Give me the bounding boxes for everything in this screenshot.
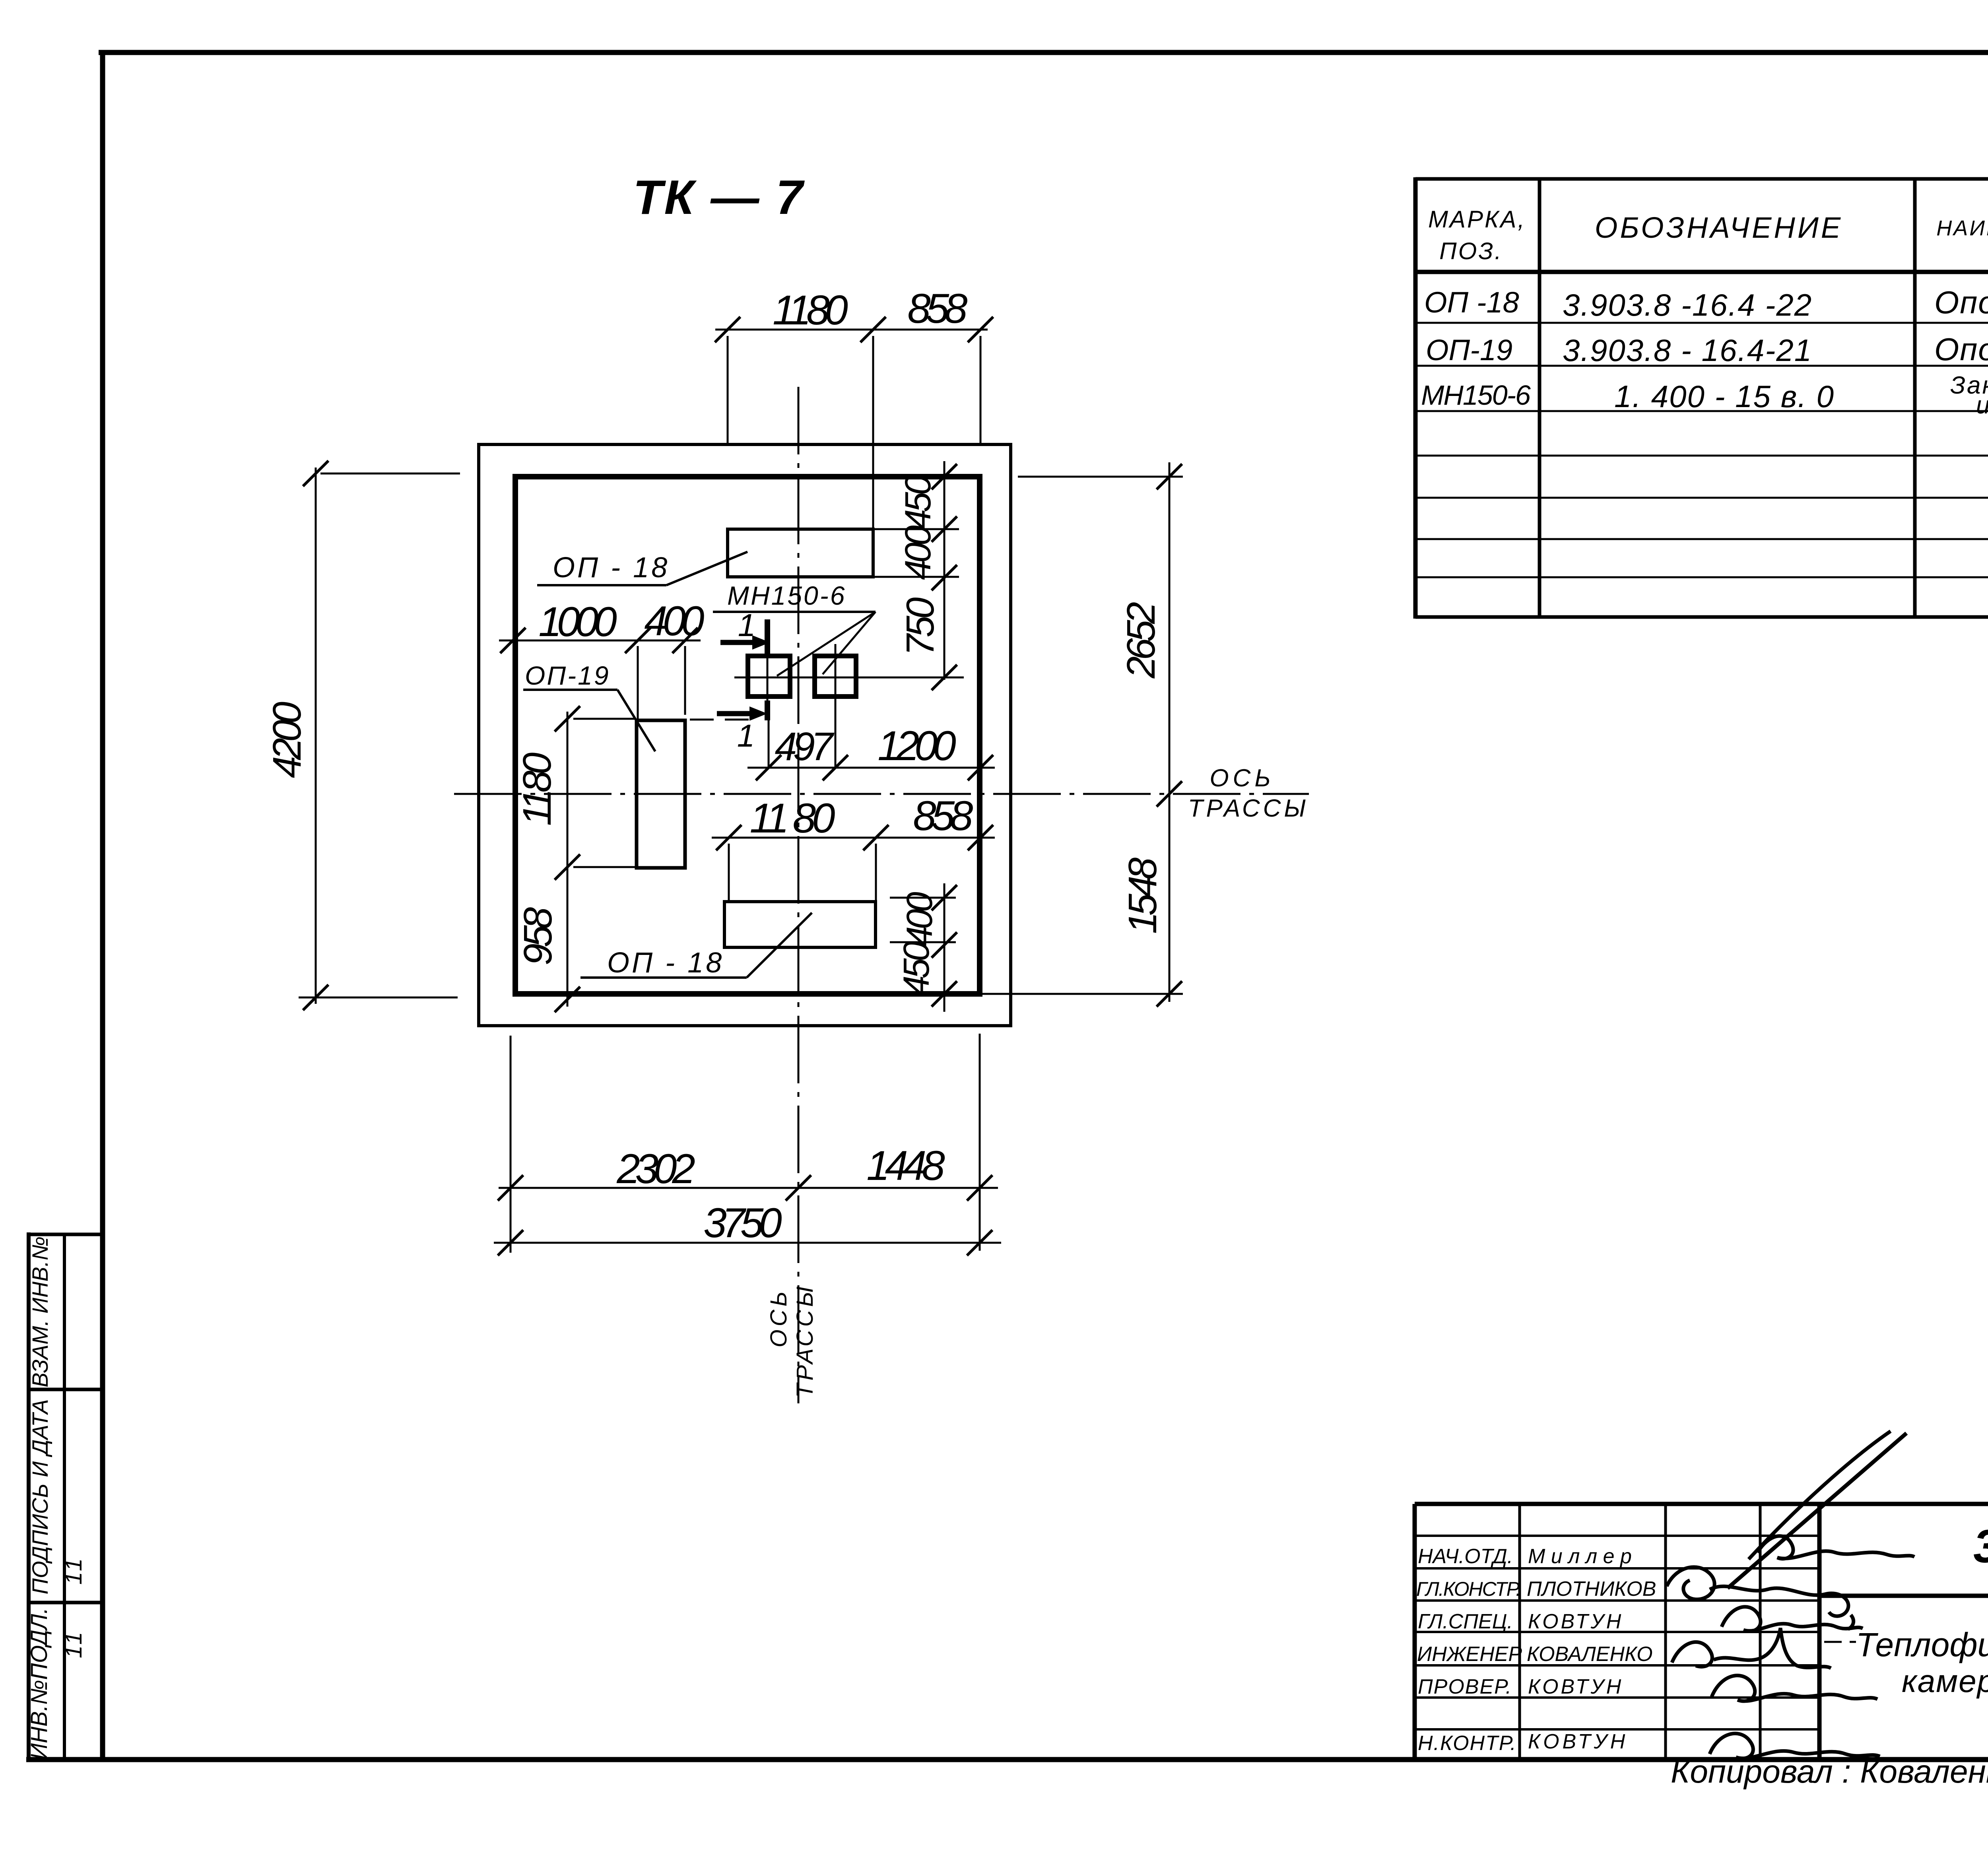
parts table left border [1413, 177, 1418, 619]
section arrow top [720, 640, 755, 645]
dim 1180/958 left: dimension line [567, 712, 569, 1007]
svg-text:ТРАССЫ: ТРАССЫ [792, 1283, 818, 1398]
parts table divider after МАРКА [1538, 179, 1541, 617]
leader МН150-6 to right square [823, 612, 876, 674]
parts table row line 1 [1415, 322, 1988, 324]
frame top edge [99, 50, 1988, 55]
svg-text:ОП-19: ОП-19 [1426, 334, 1512, 367]
svg-text:11: 11 [61, 1630, 87, 1658]
svg-text:МАРКА,: МАРКА, [1428, 206, 1526, 233]
svg-text:3750: 3750 [703, 1200, 782, 1246]
svg-text:КОВТУН: КОВТУН [1528, 1610, 1623, 1633]
svg-text:КОВТУН: КОВТУН [1528, 1675, 1623, 1698]
svg-text:3.903.8 - 16.4-21: 3.903.8 - 16.4-21 [1563, 333, 1812, 368]
svg-text:ОП -18: ОП -18 [1424, 286, 1519, 319]
signature row line 3 [1415, 1599, 1819, 1602]
svg-text:ОП - 18: ОП - 18 [607, 947, 724, 979]
svg-text:КОВАЛЕНКО: КОВАЛЕНКО [1527, 1643, 1653, 1666]
svg-text:ИНВ.№ПОДЛ.: ИНВ.№ПОДЛ. [26, 1608, 52, 1760]
svg-text:ТРАССЫ: ТРАССЫ [1188, 795, 1309, 822]
support ОП-19 [637, 720, 685, 868]
svg-text:ОБОЗНАЧЕНИЕ: ОБОЗНАЧЕНИЕ [1595, 211, 1843, 244]
document number box bottom [1819, 1594, 1988, 1598]
svg-text:1000: 1000 [538, 599, 617, 645]
dim 1180/858 inner: extension lines [728, 844, 730, 902]
signature row line 7 [1415, 1728, 1819, 1731]
dim 2302/1448: dimension line [499, 1187, 998, 1189]
svg-text:НАЧ.ОТД.: НАЧ.ОТД. [1418, 1545, 1513, 1568]
svg-text:1: 1 [737, 718, 755, 753]
embedded item МН150-6 left square [748, 656, 790, 697]
svg-text:ПЛОТНИКОВ: ПЛОТНИКОВ [1527, 1577, 1656, 1601]
parts table row line 2 [1415, 365, 1988, 367]
svg-text:2302: 2302 [616, 1146, 695, 1192]
svg-text:1448: 1448 [866, 1143, 945, 1189]
svg-text:2652: 2652 [1119, 602, 1163, 679]
dim 1180/858 inner: dimension line [712, 837, 995, 839]
embedded item МН150-6 right square [815, 656, 856, 697]
signature row line 1 [1415, 1535, 1819, 1537]
chamber outer wall [479, 444, 1011, 1026]
parts table bottom border [1415, 615, 1988, 619]
dash segment near ОП-19 top [690, 719, 755, 721]
svg-text:МН150-6: МН150-6 [727, 581, 846, 610]
dim 4200: extension lines [320, 473, 460, 475]
dash near Теплофикационная [1824, 1641, 1856, 1643]
signature table right edge [1817, 1504, 1822, 1760]
frame left edge [100, 50, 105, 1762]
signature column divider 3 [1759, 1504, 1762, 1760]
section extension to dimension line [768, 720, 770, 768]
svg-text:изделие: изделие [1976, 392, 1988, 419]
svg-text:450: 450 [896, 941, 937, 995]
parts table row line 4 [1415, 455, 1988, 457]
svg-text:958: 958 [516, 907, 560, 965]
svg-text:4200: 4200 [265, 702, 309, 778]
svg-text:1200: 1200 [878, 723, 956, 769]
dim 450/400/750: dimension line [944, 461, 945, 680]
signature flourish long stroke 2 [1749, 1431, 1891, 1559]
svg-text:858: 858 [907, 285, 967, 332]
signature column divider 2 [1664, 1504, 1667, 1760]
parts table row line 3 [1415, 410, 1988, 412]
svg-text:750: 750 [898, 598, 942, 656]
parts table divider after ОБОЗНАЧЕНИЕ [1913, 179, 1917, 617]
sidebar top edge [27, 1233, 103, 1236]
svg-text:3. 9 0 3. 8 - 1 6. 4 - 7: 3. 9 0 3. 8 - 1 6. 4 - 7 [1973, 1520, 1988, 1573]
parts table header divider [1415, 270, 1988, 274]
parts table row line 5 [1415, 497, 1988, 499]
signature column divider 1 [1518, 1504, 1521, 1760]
dim 2652/1548: dimension line [1169, 462, 1171, 1002]
dim 3750: dimension line [494, 1242, 1001, 1244]
svg-text:400: 400 [644, 598, 704, 644]
signature row line 2 [1415, 1567, 1819, 1570]
dim 400/450 bottom right: extension lines [890, 897, 956, 899]
dim 450/400/750: extension lines [875, 528, 959, 530]
svg-text:Опора: Опора [1934, 332, 1988, 367]
svg-text:ВЗАМ. ИНВ.№: ВЗАМ. ИНВ.№ [27, 1236, 52, 1387]
signature Плотников [1667, 1567, 1854, 1629]
signature Ковтун (гл.спец) [1722, 1607, 1863, 1631]
dim 1180/858 top: extension lines [727, 336, 729, 444]
chamber inner wall [515, 477, 980, 994]
title block top edge [1415, 1502, 1988, 1506]
dim 1180/958 left: extension lines [573, 718, 635, 720]
signature Миллер [1757, 1536, 1914, 1559]
svg-text:ОСЬ: ОСЬ [766, 1288, 792, 1348]
svg-text:ПОЗ.: ПОЗ. [1439, 238, 1503, 264]
svg-text:ГЛ.СПЕЦ.: ГЛ.СПЕЦ. [1418, 1610, 1513, 1633]
sidebar divider 1 [27, 1388, 103, 1391]
svg-text:ПОДПИСЬ И ДАТА: ПОДПИСЬ И ДАТА [27, 1399, 52, 1594]
svg-text:ГЛ.КОНСТР.: ГЛ.КОНСТР. [1416, 1578, 1520, 1600]
signature row line 4 [1415, 1631, 1819, 1633]
section arrow bottom [717, 711, 753, 716]
svg-text:камера ТК-7: камера ТК-7 [1902, 1663, 1988, 1699]
vertical centreline (ось трассы) [798, 387, 800, 1403]
signature row line 6 [1415, 1696, 1819, 1699]
dim 497/1200: dimension line [747, 767, 995, 769]
section line through left square [767, 655, 769, 700]
svg-text:Копировал : Коваленко: Копировал : Коваленко [1671, 1754, 1988, 1790]
dim 1180/858 top: dimension line [715, 329, 988, 331]
svg-text:400: 400 [898, 525, 938, 580]
svg-text:1180: 1180 [515, 753, 559, 826]
sidebar left edge [27, 1232, 31, 1762]
dim 2302/1448: extension lines [510, 1036, 512, 1253]
sidebar divider 2 [27, 1601, 103, 1605]
svg-text:КОВТУН: КОВТУН [1528, 1730, 1628, 1753]
support ОП-18 top [728, 529, 873, 577]
svg-text:400: 400 [899, 892, 940, 946]
dim 400/450 bottom right: dimension line [944, 883, 945, 1012]
axis through embedded items [734, 677, 964, 679]
dim 2652/1548: extension lines [1018, 476, 1183, 478]
parts table row line 6 [1415, 538, 1988, 540]
section line upper bar [765, 619, 770, 655]
frame bottom edge [26, 1757, 1988, 1762]
leader МН150-6 to left square [777, 612, 876, 676]
dim 1000/400: extension lines [637, 646, 639, 719]
sidebar column divider [63, 1234, 66, 1760]
svg-text:ОП-19: ОП-19 [525, 661, 610, 690]
svg-text:Опора: Опора [1934, 285, 1988, 320]
svg-text:НАИМЕНОВАНИЕ: НАИМЕНОВАНИЕ [1936, 216, 1988, 240]
signature Ковтун (н.контр) [1710, 1733, 1880, 1758]
signature Ковтун (провер) [1712, 1676, 1877, 1701]
horizontal centreline (ось трассы) [454, 793, 1309, 795]
signature Коваленко [1672, 1628, 1831, 1668]
svg-text:МН150-6: МН150-6 [1421, 380, 1531, 411]
svg-text:858: 858 [913, 793, 973, 839]
svg-text:Н.КОНТР.: Н.КОНТР. [1418, 1732, 1517, 1755]
svg-text:450: 450 [898, 475, 938, 529]
parts table row line 7 [1415, 576, 1988, 578]
svg-text:Теплофикационная: Теплофикационная [1856, 1626, 1988, 1663]
svg-text:1548: 1548 [1120, 857, 1165, 934]
svg-text:ПРОВЕР.: ПРОВЕР. [1418, 1675, 1512, 1698]
dim 4200: dimension line [315, 468, 317, 1004]
svg-text:ОСЬ: ОСЬ [1209, 764, 1274, 792]
title block left edge [1413, 1504, 1417, 1760]
svg-text:ОП - 18: ОП - 18 [553, 552, 670, 584]
svg-text:11: 11 [61, 1556, 87, 1585]
svg-text:497: 497 [775, 724, 835, 769]
signature row line 5 [1415, 1664, 1819, 1667]
svg-text:М и л л е р: М и л л е р [1528, 1545, 1632, 1568]
signature flourish long stroke 1 [1728, 1433, 1906, 1588]
support ОП-18 bottom [724, 902, 876, 947]
svg-text:3.903.8 -16.4 -22: 3.903.8 -16.4 -22 [1563, 287, 1812, 322]
svg-text:ИНЖЕНЕР: ИНЖЕНЕР [1417, 1643, 1522, 1666]
svg-text:ТК — 7: ТК — 7 [633, 170, 805, 224]
svg-text:11 80: 11 80 [750, 795, 835, 842]
right square axis [835, 644, 837, 768]
section line lower bar [765, 700, 770, 720]
svg-text:1. 400 - 15 в. 0: 1. 400 - 15 в. 0 [1614, 379, 1835, 414]
dim 1000/400: dimension line [499, 640, 701, 642]
svg-text:1180: 1180 [773, 287, 848, 334]
parts table top border [1415, 177, 1988, 181]
